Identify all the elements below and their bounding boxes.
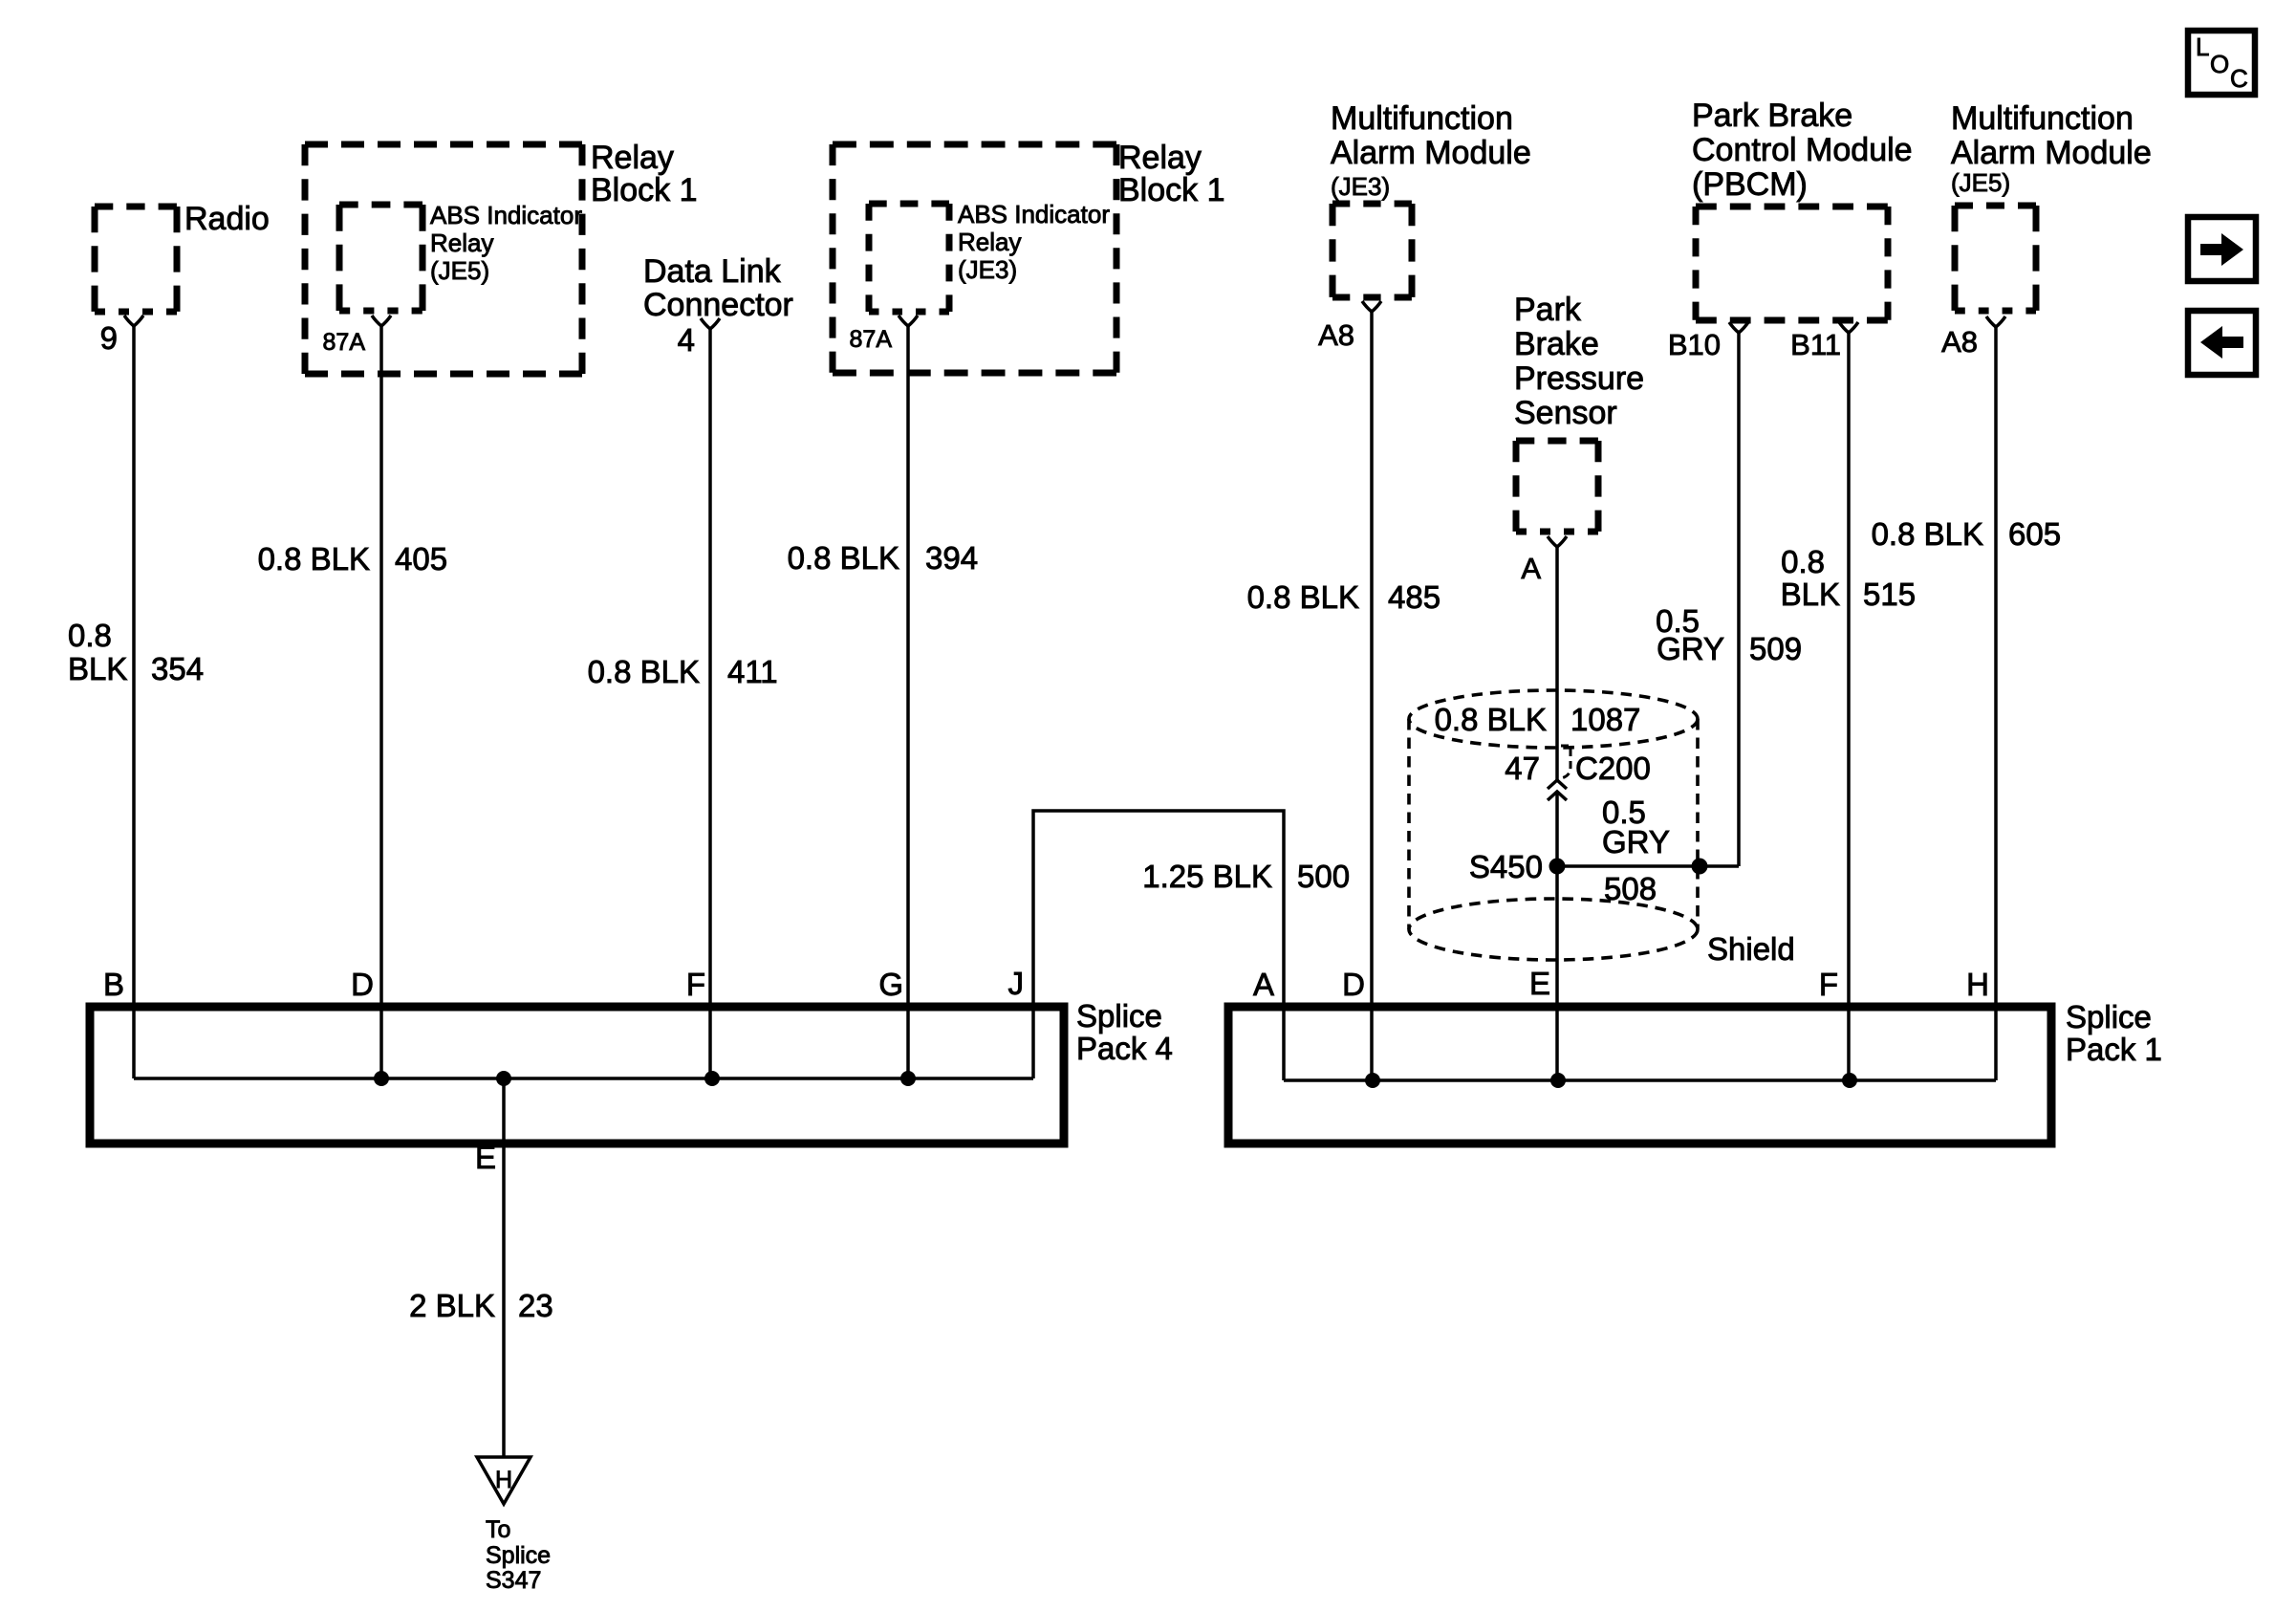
label Multifunction Alarm Module (JE3): [1331, 100, 1531, 201]
shield cylinder: [1409, 690, 1698, 960]
svg-text:A: A: [1521, 552, 1541, 585]
terminal Y pin 4 of Data Link Connector: [701, 318, 720, 329]
wire 605 (MAM JE5 to Splice Pack 1 H): [1994, 327, 1998, 1080]
svg-text:405: 405: [395, 541, 447, 577]
svg-text:354: 354: [151, 651, 204, 686]
wire drain (sensor A to C200): [1555, 547, 1559, 780]
in-line connector C200 chevrons: [1548, 780, 1567, 800]
svg-text:BLK: BLK: [1781, 577, 1840, 612]
right-arrow legend icon: [2188, 217, 2256, 281]
wire label 0.8 BLK 1087: [1435, 702, 1641, 737]
label Relay Block 1 (left): [591, 140, 698, 208]
svg-text:411: 411: [727, 654, 778, 689]
svg-text:0.8: 0.8: [68, 618, 112, 653]
svg-text:F: F: [686, 967, 705, 1002]
wire label 2 BLK 23: [409, 1288, 553, 1323]
wire label 0.5 GRY 509: [1656, 603, 1802, 666]
svg-text:Relay: Relay: [1118, 140, 1202, 176]
svg-text:B10: B10: [1668, 328, 1721, 361]
svg-text:Relay: Relay: [591, 140, 674, 176]
svg-text:4: 4: [678, 322, 695, 358]
svg-text:0.8 BLK: 0.8 BLK: [788, 540, 899, 576]
wire 500 (Splice Pack 4 J to Splice Pack 1 A): [1033, 811, 1284, 1080]
junction dot D (pack 1): [1365, 1073, 1380, 1088]
label Splice Pack 1: [2066, 999, 2162, 1067]
wire 485 (MAM JE3 to Splice Pack 1 D): [1370, 312, 1374, 1080]
svg-text:Alarm Module: Alarm Module: [1331, 135, 1531, 171]
svg-text:Pack 4: Pack 4: [1076, 1031, 1173, 1066]
svg-text:87A: 87A: [323, 329, 366, 356]
svg-text:H: H: [1966, 967, 1989, 1002]
svg-text:(JE5): (JE5): [430, 256, 489, 285]
module box PBCM: [1696, 207, 1888, 320]
splice pack box Splice Pack 1: [1228, 1007, 2051, 1143]
wire label 1.25 BLK 500: [1142, 859, 1350, 894]
label Park Brake Control Module (PBCM): [1692, 98, 1913, 203]
terminal Y pin 87A (left relay): [372, 316, 391, 326]
svg-text:Splice: Splice: [1076, 998, 1162, 1034]
svg-text:Park Brake: Park Brake: [1692, 98, 1852, 134]
splice pack box Splice Pack 4: [90, 1007, 1064, 1143]
svg-text:0.8 BLK: 0.8 BLK: [588, 654, 700, 689]
left-arrow legend icon: [2188, 311, 2256, 375]
svg-text:500: 500: [1297, 859, 1350, 894]
svg-text:47: 47: [1505, 751, 1540, 786]
label To Splice S347: [486, 1516, 551, 1594]
junction dot S450: [1549, 859, 1566, 875]
wire label 0.8 BLK 485: [1247, 579, 1440, 615]
wire 405 (ABS relay JE5 to Splice Pack 4 D): [379, 326, 383, 1078]
svg-text:Splice: Splice: [486, 1542, 551, 1569]
svg-text:2 BLK: 2 BLK: [409, 1288, 495, 1323]
wire label 0.8 BLK 515: [1781, 544, 1916, 612]
svg-text:Relay: Relay: [958, 228, 1021, 256]
svg-text:Data Link: Data Link: [643, 253, 782, 290]
svg-text:605: 605: [2008, 516, 2061, 552]
svg-text:Shield: Shield: [1707, 931, 1795, 967]
junction dot D: [374, 1071, 389, 1086]
svg-text:Splice: Splice: [2066, 999, 2152, 1034]
junction dot at shield boundary: [1692, 859, 1708, 875]
svg-text:(JE3): (JE3): [958, 255, 1017, 284]
wire 23 (Splice Pack 4 E to splice S347): [502, 1078, 506, 1457]
bus wire inside Splice Pack 4: [134, 1077, 1033, 1080]
svg-text:E: E: [475, 1140, 496, 1175]
svg-text:0.8 BLK: 0.8 BLK: [1872, 516, 1983, 552]
relay box ABS Indicator Relay (JE3): [869, 204, 949, 312]
svg-text:C: C: [2230, 64, 2248, 93]
label Multifunction Alarm Module (JE5): [1951, 100, 2152, 197]
svg-text:1.25 BLK: 1.25 BLK: [1142, 859, 1272, 894]
svg-text:Control Module: Control Module: [1692, 132, 1913, 168]
svg-text:0.8: 0.8: [1781, 544, 1825, 579]
wire label 0.5 GRY 508: [1602, 795, 1670, 906]
svg-text:Brake: Brake: [1514, 326, 1599, 362]
wire label 0.8 BLK 394: [788, 540, 978, 576]
label Splice Pack 4: [1076, 998, 1173, 1066]
wire 515 (PBCM B11 to Splice Pack 1 F): [1847, 333, 1851, 1080]
svg-text:A: A: [1253, 967, 1274, 1002]
wire label 0.8 BLK 605: [1872, 516, 2061, 552]
svg-text:F: F: [1819, 967, 1838, 1002]
svg-text:0.8 BLK: 0.8 BLK: [1247, 579, 1359, 615]
terminal Y pin B10 of PBCM: [1729, 322, 1748, 333]
svg-text:S347: S347: [486, 1567, 541, 1594]
svg-text:B11: B11: [1790, 328, 1841, 361]
label Relay Block 1 (right): [1118, 140, 1225, 208]
svg-text:Multifunction: Multifunction: [1951, 100, 2134, 137]
label ABS Indicator Relay (JE5): [430, 201, 582, 285]
svg-text:O: O: [2210, 50, 2229, 78]
junction dot E (pack 1): [1550, 1073, 1566, 1088]
svg-text:23: 23: [518, 1288, 553, 1323]
terminal Y pin A8 (JE5 module): [1986, 316, 2005, 327]
wire 394 (ABS relay JE3 to Splice Pack 4 G): [906, 326, 910, 1078]
junction dot F: [704, 1071, 720, 1086]
svg-text:J: J: [1008, 966, 1025, 1001]
svg-text:485: 485: [1388, 579, 1440, 615]
svg-text:Radio: Radio: [184, 201, 270, 237]
svg-text:0.8 BLK: 0.8 BLK: [258, 541, 370, 577]
module box Multifunction Alarm Module (JE3): [1332, 204, 1412, 297]
svg-text:GRY: GRY: [1657, 631, 1724, 666]
svg-text:Block 1: Block 1: [591, 172, 698, 208]
svg-text:(PBCM): (PBCM): [1692, 166, 1808, 203]
svg-text:394: 394: [925, 540, 978, 576]
svg-text:G: G: [878, 967, 903, 1002]
wire 411 (DLC to Splice Pack 4 F): [708, 329, 712, 1078]
terminal Y pin B11 of PBCM: [1839, 322, 1858, 333]
svg-text:Pressure: Pressure: [1514, 360, 1644, 397]
svg-text:A8: A8: [1941, 325, 1978, 359]
off-page triangle H to splice S347: [477, 1457, 531, 1504]
terminal labels B D F G J of Splice Pack 4: [103, 966, 1024, 1002]
svg-text:Block 1: Block 1: [1118, 172, 1225, 208]
svg-text:C200: C200: [1575, 751, 1651, 786]
svg-text:H: H: [495, 1467, 512, 1493]
svg-text:A8: A8: [1318, 318, 1354, 352]
wire label 0.8 BLK 405: [258, 541, 447, 577]
svg-text:S450: S450: [1469, 849, 1543, 884]
LOC legend icon: [2188, 31, 2255, 95]
svg-text:E: E: [1529, 966, 1550, 1001]
svg-text:Relay: Relay: [430, 229, 493, 257]
terminal Y pin 87A (right relay): [899, 316, 918, 326]
svg-text:Park: Park: [1514, 292, 1582, 328]
svg-text:(JE5): (JE5): [1951, 168, 2010, 197]
terminal labels A D E F H of Splice Pack 1: [1253, 966, 1989, 1002]
svg-text:87A: 87A: [850, 326, 893, 353]
svg-text:L: L: [2196, 33, 2209, 61]
svg-text:ABS Indicator: ABS Indicator: [958, 200, 1110, 229]
svg-text:0.8 BLK: 0.8 BLK: [1435, 702, 1547, 737]
svg-text:508: 508: [1604, 871, 1657, 906]
wire 354 (Radio to Splice Pack 4 B): [132, 326, 136, 1078]
connector box Radio: [95, 207, 177, 312]
svg-text:Sensor: Sensor: [1514, 395, 1617, 431]
svg-text:509: 509: [1749, 631, 1802, 666]
svg-text:B: B: [103, 967, 124, 1002]
svg-text:D: D: [1342, 967, 1365, 1002]
terminal Y pin 9 of Radio: [124, 316, 143, 326]
svg-text:9: 9: [100, 320, 118, 356]
terminal Y pin A8 (JE3 module): [1362, 301, 1381, 312]
module box Multifunction Alarm Module (JE5): [1955, 206, 2036, 311]
wire label 0.8 BLK 354: [68, 618, 204, 686]
svg-text:515: 515: [1863, 577, 1916, 612]
module box Relay Block 1 (right): [833, 144, 1116, 373]
svg-text:D: D: [351, 967, 374, 1002]
junction dot E: [496, 1071, 511, 1086]
relay box ABS Indicator Relay (JE5): [339, 205, 422, 311]
module box Relay Block 1 (left): [305, 144, 582, 374]
label Park Brake Pressure Sensor: [1514, 292, 1644, 431]
svg-text:Alarm Module: Alarm Module: [1951, 135, 2152, 171]
svg-text:ABS Indicator: ABS Indicator: [430, 201, 582, 229]
bus wire inside Splice Pack 1: [1284, 1078, 1996, 1082]
junction dot F (pack 1): [1842, 1073, 1857, 1088]
wire drain (C200 to S450 to Splice Pack 1 E): [1555, 792, 1559, 1080]
svg-text:Multifunction: Multifunction: [1331, 100, 1513, 137]
connector box Park Brake Pressure Sensor: [1516, 441, 1598, 532]
wire 509 (PBCM B10 to S450): [1737, 333, 1741, 866]
svg-text:To: To: [486, 1516, 510, 1543]
svg-text:GRY: GRY: [1602, 824, 1670, 860]
connector C200 dashed bracket: [1561, 746, 1570, 778]
label Data Link Connector: [643, 253, 793, 323]
wire 508 (S450 to PBCM B10): [1557, 864, 1739, 868]
wire label 0.8 BLK 411: [588, 654, 778, 689]
svg-text:Pack 1: Pack 1: [2066, 1032, 2162, 1067]
junction dot G: [900, 1071, 916, 1086]
svg-text:BLK: BLK: [68, 651, 127, 686]
label ABS Indicator Relay (JE3): [958, 200, 1110, 284]
terminal Y pin A of sensor: [1548, 536, 1567, 547]
svg-text:1087: 1087: [1570, 702, 1640, 737]
svg-text:(JE3): (JE3): [1331, 172, 1390, 201]
